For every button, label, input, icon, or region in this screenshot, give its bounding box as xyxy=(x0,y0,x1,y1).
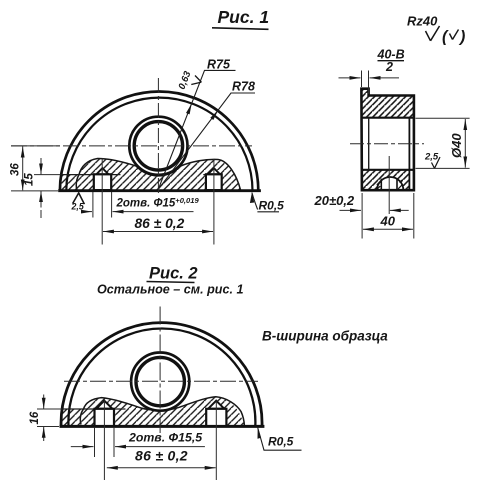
fig1 vertical centerline xyxy=(157,78,159,196)
svg-text:86 ± 0,2: 86 ± 0,2 xyxy=(135,448,188,464)
fig1 hole centerlines xyxy=(101,159,103,245)
title Рис. 2 xyxy=(147,265,198,283)
side dim 40 xyxy=(362,193,414,239)
svg-text:): ) xyxy=(458,29,465,46)
fig1 dim 86 ± 0,2 xyxy=(103,216,213,232)
fig2 central bore circles xyxy=(131,353,189,411)
svg-text:2: 2 xyxy=(385,60,393,74)
fig2 hole centerlines xyxy=(103,401,105,481)
side view bore walls xyxy=(368,118,370,170)
svg-text:R75: R75 xyxy=(207,58,231,72)
fig2 ledge lines xyxy=(62,408,126,410)
svg-text:Ø40: Ø40 xyxy=(449,133,464,158)
svg-text:86 ± 0,2: 86 ± 0,2 xyxy=(135,216,185,231)
fig2 base line xyxy=(60,425,265,428)
svg-text:Rz40: Rz40 xyxy=(407,14,438,29)
side dim 20±0,2 xyxy=(314,193,409,211)
fig2 outer arc xyxy=(61,323,262,427)
fig1 left hole (section) xyxy=(94,168,111,190)
fig1 horizontal centerline xyxy=(11,145,252,147)
side view bore bottom edge xyxy=(362,169,414,171)
fig1 roughness 0,63 on R75 line xyxy=(177,69,202,91)
svg-text:Остальное – см. рис. 1: Остальное – см. рис. 1 xyxy=(97,283,243,297)
fig1 leader R0,5 xyxy=(250,193,284,213)
side view hatched body bottom band xyxy=(362,170,409,190)
fig1 base line xyxy=(58,189,261,192)
fig1 roughness 2,5 below base xyxy=(71,193,85,211)
side roughness 2,5 xyxy=(424,151,440,168)
dome hatch slivers xyxy=(377,180,403,189)
svg-text:15: 15 xyxy=(24,173,36,186)
fig2 left hole (section) xyxy=(95,401,115,426)
fig1 radius leader R78 xyxy=(159,80,255,189)
fig1 dim 2отв Ф15 xyxy=(85,192,200,218)
svg-text:36: 36 xyxy=(10,163,22,176)
fig2 vertical centerline xyxy=(159,307,161,434)
fig1 ledge lines xyxy=(60,174,206,176)
side dim (40-B)/2 xyxy=(339,48,405,95)
side view hole centerline xyxy=(388,156,390,214)
svg-text:16: 16 xyxy=(29,411,41,424)
svg-text:Рис. 1: Рис. 1 xyxy=(218,7,270,27)
fig2 inner arc xyxy=(68,328,255,426)
fig2 dim 2отв Ф15,5 xyxy=(71,428,205,457)
fig2 horizontal centerline xyxy=(64,380,258,382)
side dim Ф40 xyxy=(416,118,470,168)
fig2 dim 16 xyxy=(29,395,62,442)
svg-text:R78: R78 xyxy=(232,80,255,94)
side view break dome xyxy=(377,177,403,190)
fig1 outer arc R78 xyxy=(60,91,258,190)
fig1 dim 36 xyxy=(10,146,61,191)
title Рис. 1 xyxy=(212,7,269,29)
fig1 central bore circles xyxy=(129,117,187,175)
svg-text:20±0,2: 20±0,2 xyxy=(314,193,355,208)
side view bore top edge xyxy=(362,117,414,119)
fig2 right hole (section) xyxy=(206,401,226,426)
svg-text:40: 40 xyxy=(380,214,396,229)
svg-text:2,5: 2,5 xyxy=(71,201,84,211)
svg-text:2,5: 2,5 xyxy=(424,151,439,162)
svg-text:R0,5: R0,5 xyxy=(268,435,294,449)
fig1 inner arc R75 xyxy=(66,98,252,191)
side view hole walls in dome xyxy=(381,179,397,191)
fig1 dim 15 xyxy=(24,158,61,218)
fig1 wave break line xyxy=(76,158,240,190)
roughness note Rz40 xyxy=(407,14,465,46)
svg-text:В-ширина образца: В-ширина образца xyxy=(262,329,388,344)
side view outline xyxy=(361,89,414,191)
fig2 dim 86 ± 0,2 xyxy=(107,448,216,468)
svg-text:2отв. Ф15,5: 2отв. Ф15,5 xyxy=(128,431,202,445)
fig2 leader R0,5 xyxy=(258,428,302,451)
fig1 right hole (section) xyxy=(206,168,222,190)
side view horizontal centerline xyxy=(350,143,424,145)
svg-text:R0,5: R0,5 xyxy=(259,198,285,212)
fig1 radius leader R75 xyxy=(159,58,236,189)
svg-text:Рис. 2: Рис. 2 xyxy=(149,265,198,283)
fig2 wave break line xyxy=(80,397,244,426)
fig2 hatched section xyxy=(61,397,244,426)
fig1 hatched section xyxy=(60,158,241,190)
side view hatched body top band xyxy=(361,89,414,118)
